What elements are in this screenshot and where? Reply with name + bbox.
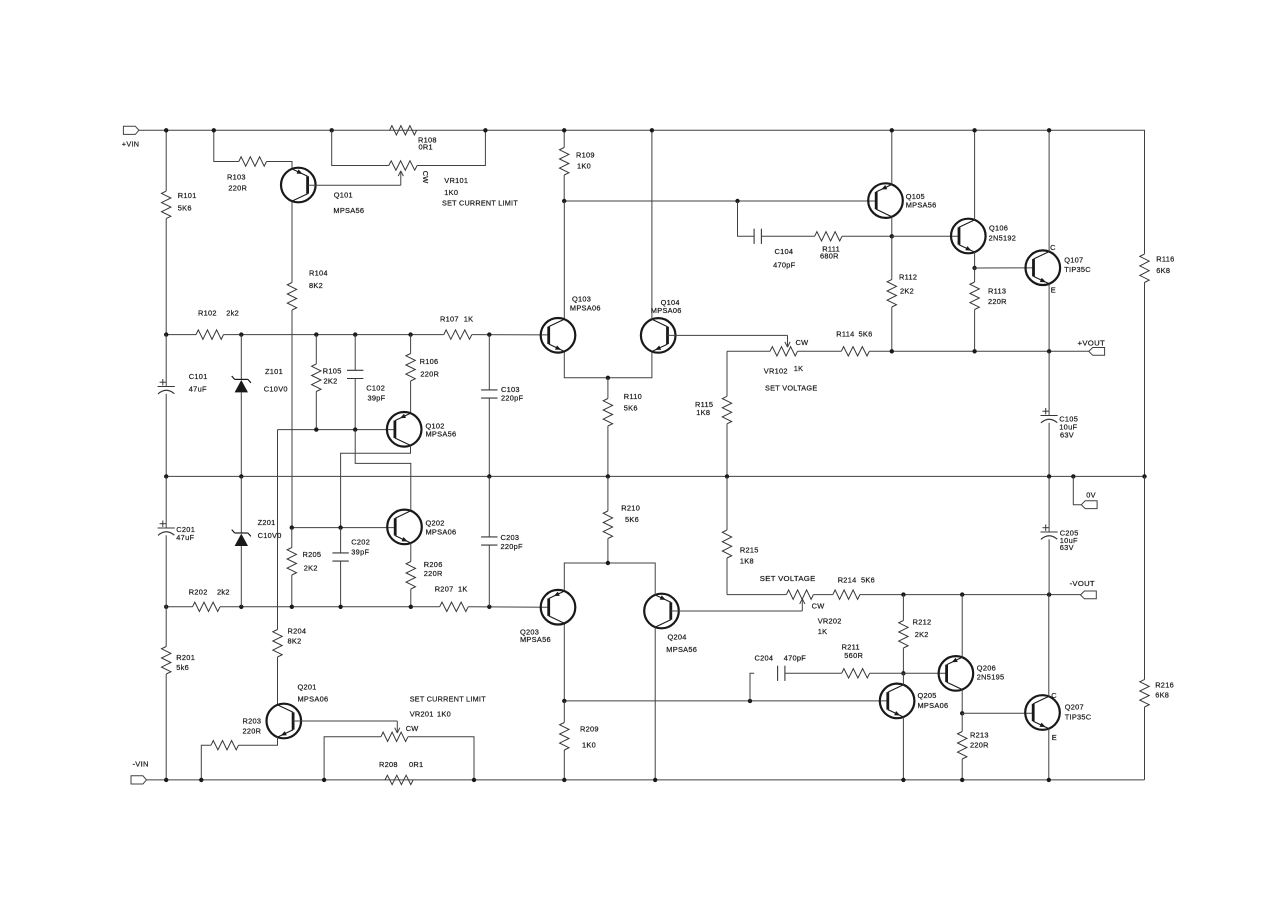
svg-text:R112: R112 <box>899 272 917 281</box>
capacitor C204 <box>755 653 807 681</box>
wire Q106 emitter <box>974 252 976 268</box>
wire Q106 base <box>892 235 959 237</box>
wire C201 bottom <box>165 535 167 646</box>
label SET CURRENT LIMIT lower <box>410 695 486 704</box>
junction C102 bottom <box>353 427 357 431</box>
resistor R116 <box>1140 254 1175 283</box>
junction R212 top <box>901 592 905 596</box>
potentiometer VR202 <box>760 574 842 636</box>
resistor R205 <box>287 528 321 607</box>
wire left rail to vref rail <box>165 219 167 335</box>
svg-text:VR202: VR202 <box>818 617 842 626</box>
svg-text:1K0: 1K0 <box>437 709 451 718</box>
junction Q105 collector node <box>890 234 894 238</box>
pin label E lower Q207 <box>1052 733 1057 742</box>
svg-text:R207: R207 <box>435 584 454 593</box>
svg-text:Q201: Q201 <box>298 683 317 692</box>
wire Q202 base net <box>292 527 395 529</box>
svg-text:R116: R116 <box>1156 255 1174 264</box>
svg-text:-VIN: -VIN <box>133 759 149 768</box>
svg-text:R102: R102 <box>198 308 217 317</box>
wire Q107 emitter to +VOUT net <box>1048 284 1050 352</box>
resistor R207 <box>435 584 469 611</box>
svg-text:R205: R205 <box>303 550 322 559</box>
svg-text:MPSA06: MPSA06 <box>570 303 601 312</box>
svg-text:1K8: 1K8 <box>696 408 710 417</box>
wire lower rail left <box>166 606 192 608</box>
svg-text:VR201: VR201 <box>410 709 434 718</box>
capacitor C105 <box>1041 351 1079 476</box>
pin label C upper Q107 <box>1050 243 1056 252</box>
resistor R215 <box>722 530 758 595</box>
junction Q206 collector node <box>960 711 964 715</box>
junction Z101 top <box>239 332 243 336</box>
wire VR101 left leg <box>332 130 389 165</box>
junction Q104 rail <box>650 128 654 132</box>
resistor R108 <box>390 126 437 152</box>
resistor R109 <box>560 148 595 176</box>
svg-text:47uF: 47uF <box>189 384 207 393</box>
wire Q107 base <box>975 267 1034 269</box>
junction R205 bottom <box>290 605 294 609</box>
wire VR102 to R114 <box>798 350 842 352</box>
terminal +VIN <box>122 126 140 148</box>
svg-text:C101: C101 <box>189 372 208 381</box>
wire Q201 emitter to R203 <box>239 737 278 745</box>
svg-text:R113: R113 <box>988 287 1006 296</box>
svg-text:R206: R206 <box>424 560 443 569</box>
svg-text:SET VOLTAGE: SET VOLTAGE <box>760 574 816 583</box>
junction R110 top <box>606 376 610 380</box>
wire R115 top leg <box>726 351 728 396</box>
svg-text:680R: 680R <box>820 251 839 260</box>
svg-text:5K6: 5K6 <box>859 330 873 339</box>
svg-text:R209: R209 <box>580 724 599 733</box>
wire VR101 right leg <box>417 130 485 165</box>
resistor R202 <box>189 587 230 611</box>
svg-text:Q207: Q207 <box>1065 702 1084 711</box>
svg-text:R103: R103 <box>227 173 246 182</box>
svg-text:5K6: 5K6 <box>178 203 192 212</box>
svg-text:1K: 1K <box>458 584 468 593</box>
wire Q204 base to VR202 wiper <box>671 610 803 612</box>
transistor Q207 lower <box>1025 695 1092 730</box>
transistor Q104 <box>641 298 682 353</box>
svg-text:5K6: 5K6 <box>861 575 875 584</box>
svg-text:220pF: 220pF <box>501 542 524 551</box>
resistor R105 <box>312 335 342 430</box>
svg-text:R107: R107 <box>440 315 459 324</box>
junction R112 bottom <box>890 349 894 353</box>
svg-text:2K2: 2K2 <box>915 630 929 639</box>
junction C103 top <box>487 332 491 336</box>
junction C105 top <box>1047 349 1051 353</box>
svg-text:63V: 63V <box>1060 543 1074 552</box>
svg-text:2k2: 2k2 <box>217 587 230 596</box>
resistor R201 <box>162 647 196 675</box>
svg-text:1K0: 1K0 <box>577 161 591 170</box>
svg-text:6K8: 6K8 <box>1156 266 1170 275</box>
svg-text:R216: R216 <box>1155 681 1174 690</box>
wire Q205 base net <box>564 700 887 702</box>
svg-text:220R: 220R <box>228 184 247 193</box>
svg-text:2K2: 2K2 <box>324 377 338 386</box>
svg-text:VR101: VR101 <box>444 176 468 185</box>
wire C101 bottom <box>165 394 167 477</box>
transistor Q204 <box>644 594 697 654</box>
svg-text:Q202: Q202 <box>426 519 445 528</box>
svg-text:MPSA06: MPSA06 <box>426 528 457 537</box>
svg-text:-VOUT: -VOUT <box>1070 579 1095 588</box>
resistor R102 <box>196 308 239 339</box>
resistor R209 <box>560 701 599 780</box>
svg-text:TIP35C: TIP35C <box>1065 713 1092 722</box>
resistor R103 <box>227 157 267 193</box>
zener Z201 <box>232 476 282 606</box>
wire VR201 left leg <box>324 737 381 780</box>
wire R111 to Q105 collector node <box>842 235 892 237</box>
svg-text:220R: 220R <box>988 297 1007 306</box>
wire Q205 emitter <box>902 717 904 780</box>
wire Q101 base to VR101 wiper <box>308 184 401 186</box>
transistor Q102 <box>387 412 456 447</box>
svg-text:C203: C203 <box>501 533 520 542</box>
wire Q206 collector down <box>961 690 963 714</box>
svg-text:0R1: 0R1 <box>419 142 433 151</box>
wire Q204 collector down <box>654 627 656 780</box>
wire R207 to Q203 base <box>468 606 549 608</box>
transistor Q106 <box>951 219 1016 254</box>
svg-text:R114: R114 <box>836 330 854 339</box>
junction R203 bottom <box>199 778 203 782</box>
wire Q205 collector <box>902 673 904 685</box>
transistor Q203 <box>520 590 575 644</box>
svg-text:MPSA06: MPSA06 <box>918 701 949 710</box>
svg-text:R109: R109 <box>576 150 595 159</box>
resistor R101 <box>162 191 197 219</box>
resistor R203 <box>211 716 261 750</box>
capacitor C101 <box>158 335 208 394</box>
transistor Q101 <box>281 168 364 215</box>
svg-text:220R: 220R <box>424 569 443 578</box>
junction R213 bottom <box>960 778 964 782</box>
wire vref rail mid <box>224 334 444 336</box>
svg-text:Q106: Q106 <box>989 224 1008 233</box>
zener Z101 <box>232 335 288 477</box>
wire R215 leg <box>726 476 728 530</box>
svg-text:MPSA56: MPSA56 <box>333 206 364 215</box>
wire VR202 to R214 <box>813 594 833 596</box>
wire lower rail mid <box>220 606 440 608</box>
wiper arrow VR202 <box>800 599 825 611</box>
svg-text:SET VOLTAGE: SET VOLTAGE <box>765 383 818 392</box>
wire left rail upper <box>165 130 167 191</box>
junction R209 top <box>562 699 566 703</box>
capacitor C205 <box>1041 476 1079 594</box>
junction R212 bottom <box>901 671 905 675</box>
junction VR201 left bottom <box>322 778 326 782</box>
resistor R204 <box>273 627 306 658</box>
svg-text:Q101: Q101 <box>334 190 353 199</box>
svg-text:39pF: 39pF <box>368 394 386 403</box>
svg-text:MPSA56: MPSA56 <box>426 430 457 439</box>
wire Q206 base <box>903 672 946 674</box>
svg-text:47uF: 47uF <box>176 533 194 542</box>
svg-text:MPSA56: MPSA56 <box>520 635 551 644</box>
svg-text:220pF: 220pF <box>501 393 524 402</box>
junction 0V branch <box>1071 474 1075 478</box>
svg-text:E: E <box>1052 733 1057 742</box>
svg-text:2K2: 2K2 <box>304 564 318 573</box>
resistor R112 <box>887 236 917 351</box>
svg-text:8K2: 8K2 <box>309 281 323 290</box>
svg-text:2N5192: 2N5192 <box>989 233 1017 242</box>
svg-text:SET CURRENT LIMIT: SET CURRENT LIMIT <box>442 198 518 207</box>
svg-text:R110: R110 <box>624 392 642 401</box>
wire VR201 right leg <box>408 737 474 780</box>
junction R109 top rail <box>562 128 566 132</box>
svg-text:R215: R215 <box>740 546 759 555</box>
wire 0V branch <box>1073 476 1081 504</box>
junction R115 bottom <box>725 474 729 478</box>
terminal -VIN <box>131 759 149 784</box>
svg-text:C: C <box>1051 691 1057 700</box>
junction C104 branch <box>735 199 739 203</box>
terminal +VOUT <box>1078 338 1106 355</box>
junction R109/Q103 collector node <box>562 199 566 203</box>
junction R108 right <box>483 128 487 132</box>
svg-text:0V: 0V <box>1086 491 1096 500</box>
potentiometer VR101 <box>389 161 518 208</box>
label VR201 <box>410 709 451 718</box>
junction R105 bottom <box>314 427 318 431</box>
svg-text:MPSA06: MPSA06 <box>298 695 329 704</box>
svg-text:Z201: Z201 <box>258 518 276 527</box>
wire R103 branch from top rail <box>214 130 239 161</box>
capacitor C104 <box>754 229 796 270</box>
wire Q104 collector to rail <box>651 130 653 319</box>
wiper arrow VR201 <box>395 721 419 733</box>
transistor Q201 <box>267 683 329 739</box>
svg-text:R203: R203 <box>243 716 262 725</box>
resistor R206 <box>406 543 442 607</box>
junction R205 top <box>290 525 294 529</box>
resistor R114 <box>836 330 872 356</box>
junction VR201 right bottom <box>472 778 476 782</box>
junction C102 top <box>353 332 357 336</box>
terminal -VOUT <box>1070 579 1097 599</box>
svg-text:2k2: 2k2 <box>226 308 239 317</box>
svg-text:1K0: 1K0 <box>444 188 458 197</box>
svg-text:CW: CW <box>421 171 430 184</box>
svg-text:VR102: VR102 <box>764 367 788 376</box>
svg-text:Q205: Q205 <box>918 691 937 700</box>
junction -VIN node <box>164 778 168 782</box>
svg-text:5K6: 5K6 <box>624 404 638 413</box>
wire R104 down to Q202 base node <box>291 310 293 528</box>
wire Q105 collector <box>891 217 893 237</box>
resistor R214 <box>833 575 875 599</box>
junction R209 bottom <box>562 778 566 782</box>
wire Q103 Q104 emitter coupling <box>564 352 652 378</box>
wire Q207 lower base <box>962 712 1033 714</box>
resistor R113 <box>970 268 1007 351</box>
svg-text:R214: R214 <box>838 575 857 584</box>
wire Q102 base net <box>278 429 395 431</box>
wire Q201 base to VR201 wiper <box>293 720 397 722</box>
capacitor C102 <box>347 335 386 430</box>
svg-text:CW: CW <box>406 724 419 733</box>
resistor R106 <box>406 335 439 414</box>
svg-text:R213: R213 <box>970 730 989 739</box>
svg-text:Q204: Q204 <box>668 632 687 641</box>
junction R113 bottom <box>972 349 976 353</box>
resistor R104 <box>287 269 327 310</box>
junction Z201 bottom <box>239 605 243 609</box>
svg-text:C10V0: C10V0 <box>258 531 282 540</box>
svg-text:Q107: Q107 <box>1064 256 1083 265</box>
junction mid left rail <box>164 474 168 478</box>
wire R201 bottom <box>165 674 167 780</box>
wire R107 to Q103 base <box>472 334 549 336</box>
junction Q207 lower emitter bottom <box>1047 778 1051 782</box>
junction mid right rail <box>1142 474 1146 478</box>
resistor R211 <box>842 643 870 679</box>
resistor R107 <box>440 315 473 340</box>
svg-text:0R1: 0R1 <box>409 760 423 769</box>
junction Q105 rail <box>890 128 894 132</box>
svg-text:Z101: Z101 <box>265 367 283 376</box>
svg-text:Q103: Q103 <box>572 295 591 304</box>
junction lower left rail <box>164 605 168 609</box>
svg-text:470pF: 470pF <box>784 653 807 662</box>
wire top rail <box>139 130 1145 254</box>
svg-text:1K8: 1K8 <box>740 557 754 566</box>
junction R210 bottom <box>606 561 610 565</box>
svg-text:CW: CW <box>796 338 809 347</box>
svg-text:220R: 220R <box>970 740 989 749</box>
junction Q204 collector bottom <box>653 778 657 782</box>
wire R204 to Q201 collector <box>277 657 279 705</box>
svg-text:C102: C102 <box>366 384 385 393</box>
transistor Q202 <box>387 510 456 545</box>
transistor Q107 upper <box>1026 250 1092 285</box>
svg-text:R101: R101 <box>178 191 197 200</box>
wire R210 bottom leg <box>607 476 609 511</box>
svg-text:63V: 63V <box>1060 430 1074 439</box>
junction R206 bottom <box>409 605 413 609</box>
wire Q206 emitter up <box>961 595 963 658</box>
svg-text:R106: R106 <box>420 357 439 366</box>
wire C204 to R211 <box>785 672 842 674</box>
wire C104 branch <box>738 201 755 236</box>
junction C101 top <box>164 332 168 336</box>
wire +VOUT net <box>869 350 1089 352</box>
svg-text:2K2: 2K2 <box>900 286 914 295</box>
junction R106 top <box>408 332 412 336</box>
resistor R212 <box>899 595 932 674</box>
pin label E upper Q107 <box>1051 285 1056 294</box>
svg-text:1K: 1K <box>818 627 828 636</box>
wire C204 branch <box>750 673 754 701</box>
wire bottom rail <box>147 779 1145 781</box>
wire right rail upper <box>1144 283 1146 477</box>
svg-text:C: C <box>1050 243 1056 252</box>
svg-text:SET CURRENT LIMIT: SET CURRENT LIMIT <box>410 695 486 704</box>
svg-text:1K0: 1K0 <box>582 740 596 749</box>
junction C205 bottom node <box>1047 592 1051 596</box>
wire Q103 collector <box>563 201 565 319</box>
wire Q104 base to VR102 wiper <box>668 334 788 336</box>
svg-text:1K: 1K <box>794 364 804 373</box>
wire C104 to R111 <box>762 235 815 237</box>
wire Q102 collector staircase <box>341 445 411 527</box>
junction C103 bottom <box>487 474 491 478</box>
wire Q105 base net <box>564 200 876 202</box>
resistor R208 <box>379 760 423 785</box>
svg-text:8K2: 8K2 <box>288 636 302 645</box>
wire Q203 collector down <box>563 625 565 701</box>
svg-text:R210: R210 <box>621 504 640 513</box>
svg-text:R212: R212 <box>913 617 932 626</box>
junction C105 bottom <box>1047 474 1051 478</box>
resistor R110 <box>603 378 642 477</box>
junction C202 top <box>338 525 342 529</box>
junction Q106 rail <box>972 128 976 132</box>
wire Q105 emitter to rail <box>891 130 893 184</box>
svg-text:5k6: 5k6 <box>176 663 189 672</box>
svg-text:C204: C204 <box>755 653 774 662</box>
junction C203 bottom <box>487 605 491 609</box>
junction R110 bottom <box>606 474 610 478</box>
junction Q107 rail <box>1047 128 1051 132</box>
junction C204 branch <box>748 699 752 703</box>
svg-text:TIP35C: TIP35C <box>1064 265 1091 274</box>
transistor Q103 <box>541 295 601 353</box>
svg-text:+VOUT: +VOUT <box>1078 338 1106 347</box>
svg-text:C104: C104 <box>775 247 794 256</box>
svg-text:220R: 220R <box>420 370 439 379</box>
svg-text:470pF: 470pF <box>773 260 796 269</box>
wire mid rail <box>166 475 1144 477</box>
terminal 0V <box>1081 491 1097 509</box>
resistor R216 <box>1140 476 1174 779</box>
svg-text:MPSA56: MPSA56 <box>906 201 937 210</box>
wiper arrow VR102 <box>785 335 808 347</box>
junction R108 left <box>330 128 334 132</box>
svg-text:R104: R104 <box>309 269 328 278</box>
junction +VIN node <box>164 128 168 132</box>
wire VR102 left <box>727 350 770 352</box>
svg-text:MPSA56: MPSA56 <box>666 645 697 654</box>
svg-text:5K6: 5K6 <box>625 515 639 524</box>
transistor Q205 <box>880 684 949 719</box>
wire R103 to Q101 emitter <box>267 162 293 169</box>
svg-text:R208: R208 <box>379 760 398 769</box>
transistor Q105 <box>868 183 936 218</box>
capacitor C103 <box>481 335 523 477</box>
svg-text:39pF: 39pF <box>351 548 369 557</box>
svg-text:CW: CW <box>812 602 825 611</box>
wire Q207 lower collector <box>1048 595 1050 697</box>
wire R211 to R212 node <box>870 672 904 674</box>
wire R203 to bottom rail <box>201 745 211 780</box>
resistor R111 <box>815 232 842 261</box>
wire Q107 collector to rail <box>1048 130 1050 251</box>
svg-text:220R: 220R <box>243 727 262 736</box>
wire R109 bottom <box>563 175 565 201</box>
resistor R213 <box>958 713 989 780</box>
